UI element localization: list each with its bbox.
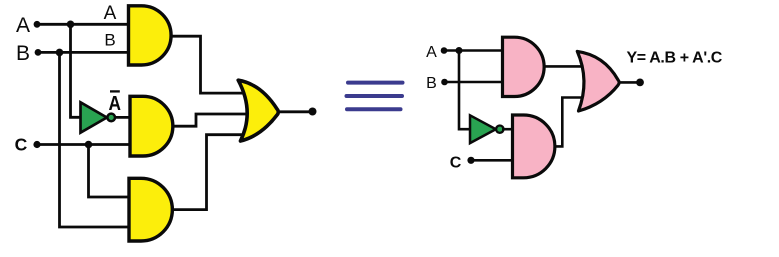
svg-text:C: C (450, 154, 462, 171)
wire A to AND gate G5 (444, 49, 503, 52)
AND gate G2 (A'.C) yellow (130, 96, 173, 156)
OR gate G4 yellow (238, 80, 278, 141)
equivalence symbol bar 2 (345, 94, 405, 98)
svg-text:C: C (15, 134, 28, 154)
node C input label (right) (450, 154, 462, 171)
pin label A on G1 input (104, 3, 117, 24)
wire inverter output to AND gate G2 (114, 116, 133, 119)
output terminal Y left (309, 108, 317, 116)
svg-text:Y= A.B + A'.C: Y= A.B + A'.C (627, 50, 723, 67)
wire B to AND gate G5 (445, 81, 504, 84)
wire B to AND gate G1 (38, 51, 129, 54)
wire G6 output to OR gate G7 (555, 98, 590, 147)
input terminal B (35, 49, 42, 56)
node B input label (16, 42, 30, 65)
junction C branch (85, 141, 93, 149)
equation label Y = A.B + A'.C (627, 50, 723, 67)
wire G7 output (620, 81, 639, 84)
node B input label (right) (426, 75, 437, 92)
wire G5 output to OR gate G7 (544, 65, 590, 68)
node A input label (16, 14, 30, 37)
input terminal A (right) (441, 47, 448, 54)
wire A branch down to inverter U2 (459, 51, 471, 130)
net label A-bar (109, 91, 122, 115)
wire G3 output to OR gate G4 (172, 135, 252, 210)
junction A branch (67, 21, 75, 29)
wire B branch down to AND gate G3 (60, 52, 131, 227)
AND gate G6 (A'.C) pink (513, 115, 555, 178)
wire C to AND gate G2 (37, 143, 131, 146)
input terminal B (right) (441, 79, 448, 86)
output terminal Y right (636, 79, 644, 87)
input terminal C (33, 141, 40, 148)
AND gate G5 (A.B) pink (503, 37, 545, 96)
input terminal A (34, 21, 41, 28)
OR gate G7 pink (577, 51, 619, 111)
junction A branch (right) (456, 47, 463, 54)
wire A to AND gate G1 (37, 23, 129, 26)
NOT gate U2 (inverter for A, right) (470, 115, 503, 143)
svg-text:A: A (426, 44, 437, 61)
junction B branch (56, 49, 64, 57)
equivalence symbol bar 1 (346, 81, 405, 85)
input terminal C (right) (467, 157, 474, 164)
svg-text:B: B (16, 42, 30, 65)
svg-text:A: A (109, 93, 122, 115)
equivalence symbol bar 3 (345, 107, 403, 111)
wire G2 output to OR gate G4 (173, 114, 256, 126)
node C input label (15, 134, 28, 154)
pin label B on G1 input (104, 30, 115, 49)
node A input label (right) (426, 44, 437, 61)
svg-text:A: A (104, 3, 117, 24)
wire C branch down to AND gate G3 (89, 145, 131, 198)
wire G1 output to OR gate G4 (170, 36, 252, 93)
wire C to AND gate G6 (471, 159, 513, 162)
wire inverter U2 output to AND gate G6 (502, 128, 514, 131)
wire A branch down to inverter (71, 24, 83, 117)
NOT gate U1 (inverter for A) (81, 102, 115, 132)
AND gate G3 (B.C) yellow (129, 178, 172, 241)
svg-text:B: B (426, 75, 437, 92)
AND gate G1 (A.B) yellow (129, 6, 172, 65)
svg-text:B: B (104, 30, 115, 49)
svg-text:A: A (16, 14, 30, 37)
wire G4 output (279, 110, 313, 113)
